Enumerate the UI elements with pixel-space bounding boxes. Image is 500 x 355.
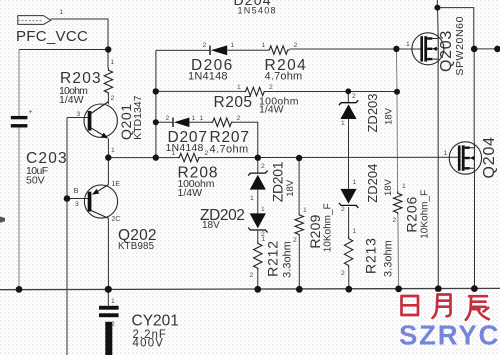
svg-text:3.3ohm: 3.3ohm	[382, 240, 394, 277]
svg-text:2: 2	[341, 270, 345, 277]
svg-text:400V: 400V	[133, 338, 165, 350]
svg-text:R205: R205	[214, 94, 253, 111]
svg-text:R212: R212	[265, 240, 281, 277]
svg-text:2C: 2C	[112, 216, 121, 223]
svg-text:R213: R213	[363, 237, 379, 274]
svg-text:1: 1	[250, 195, 254, 202]
svg-text:R209: R209	[307, 214, 323, 248]
svg-text:1: 1	[303, 207, 307, 214]
svg-text:1: 1	[111, 59, 115, 66]
svg-text:18V: 18V	[202, 220, 220, 231]
svg-text:Q203: Q203	[438, 30, 455, 72]
svg-text:4.7ohm: 4.7ohm	[210, 143, 249, 155]
svg-text:ZD201: ZD201	[270, 161, 286, 202]
svg-text:2: 2	[203, 42, 207, 49]
svg-text:3: 3	[75, 201, 79, 208]
svg-text:18V: 18V	[285, 179, 296, 197]
svg-text:2: 2	[294, 42, 298, 49]
svg-text:B: B	[74, 186, 79, 195]
svg-text:1E: 1E	[112, 181, 121, 188]
svg-text:2: 2	[341, 206, 345, 213]
svg-text:1: 1	[262, 42, 266, 49]
svg-text:KTB985: KTB985	[118, 241, 154, 252]
svg-text:1: 1	[261, 206, 265, 213]
svg-text:1: 1	[237, 84, 241, 91]
svg-text:1: 1	[353, 179, 357, 186]
svg-text:1: 1	[60, 9, 64, 16]
svg-text:3: 3	[77, 111, 81, 118]
svg-text:PFC_VCC: PFC_VCC	[16, 28, 88, 45]
svg-text:1N4148: 1N4148	[188, 71, 228, 83]
svg-text:2: 2	[269, 84, 273, 91]
svg-text:1: 1	[262, 236, 266, 243]
svg-text:1N5408: 1N5408	[238, 6, 277, 16]
svg-text:1: 1	[192, 115, 196, 122]
svg-text:4.7ohm: 4.7ohm	[265, 71, 303, 83]
svg-text:1: 1	[111, 298, 115, 305]
svg-text:3.3ohm: 3.3ohm	[281, 241, 293, 278]
svg-text:ZD203: ZD203	[365, 93, 380, 132]
svg-text:2: 2	[205, 150, 209, 157]
svg-text:2: 2	[352, 93, 356, 100]
svg-text:2: 2	[111, 321, 115, 328]
svg-text:2: 2	[250, 272, 254, 279]
svg-text:18V: 18V	[383, 178, 394, 196]
svg-text:1/4W: 1/4W	[59, 94, 84, 106]
svg-text:10Kohm_F: 10Kohm_F	[323, 203, 334, 252]
svg-text:1/4W: 1/4W	[259, 104, 284, 116]
svg-text:2: 2	[166, 115, 170, 122]
svg-text:1: 1	[231, 42, 235, 49]
svg-text:10Kohm_F: 10Kohm_F	[420, 190, 431, 239]
svg-text:2: 2	[261, 163, 265, 170]
svg-text:2: 2	[237, 115, 241, 122]
svg-text:2: 2	[111, 95, 115, 102]
svg-text:18V: 18V	[384, 107, 395, 125]
svg-text:2: 2	[393, 217, 397, 224]
svg-text:1: 1	[111, 147, 115, 154]
svg-text:Q204: Q204	[481, 136, 498, 178]
svg-text:ZD204: ZD204	[365, 164, 380, 203]
svg-text:+: +	[29, 109, 33, 116]
svg-text:R206: R206	[403, 196, 419, 233]
svg-text:SPW20N60: SPW20N60	[454, 16, 466, 76]
svg-text:1: 1	[444, 150, 448, 157]
svg-text:SZRYC: SZRYC	[399, 320, 500, 351]
svg-text:1: 1	[200, 115, 204, 122]
svg-text:KTD1347: KTD1347	[132, 95, 144, 140]
svg-text:1: 1	[353, 228, 357, 235]
svg-text:50V: 50V	[26, 175, 45, 187]
svg-text:1/4W: 1/4W	[178, 187, 203, 199]
svg-text:CY201: CY201	[132, 313, 179, 330]
svg-text:2: 2	[293, 237, 297, 244]
svg-text:1: 1	[341, 120, 345, 127]
svg-text:1: 1	[406, 41, 410, 48]
svg-text:1: 1	[402, 183, 406, 190]
svg-text:1: 1	[172, 150, 176, 157]
